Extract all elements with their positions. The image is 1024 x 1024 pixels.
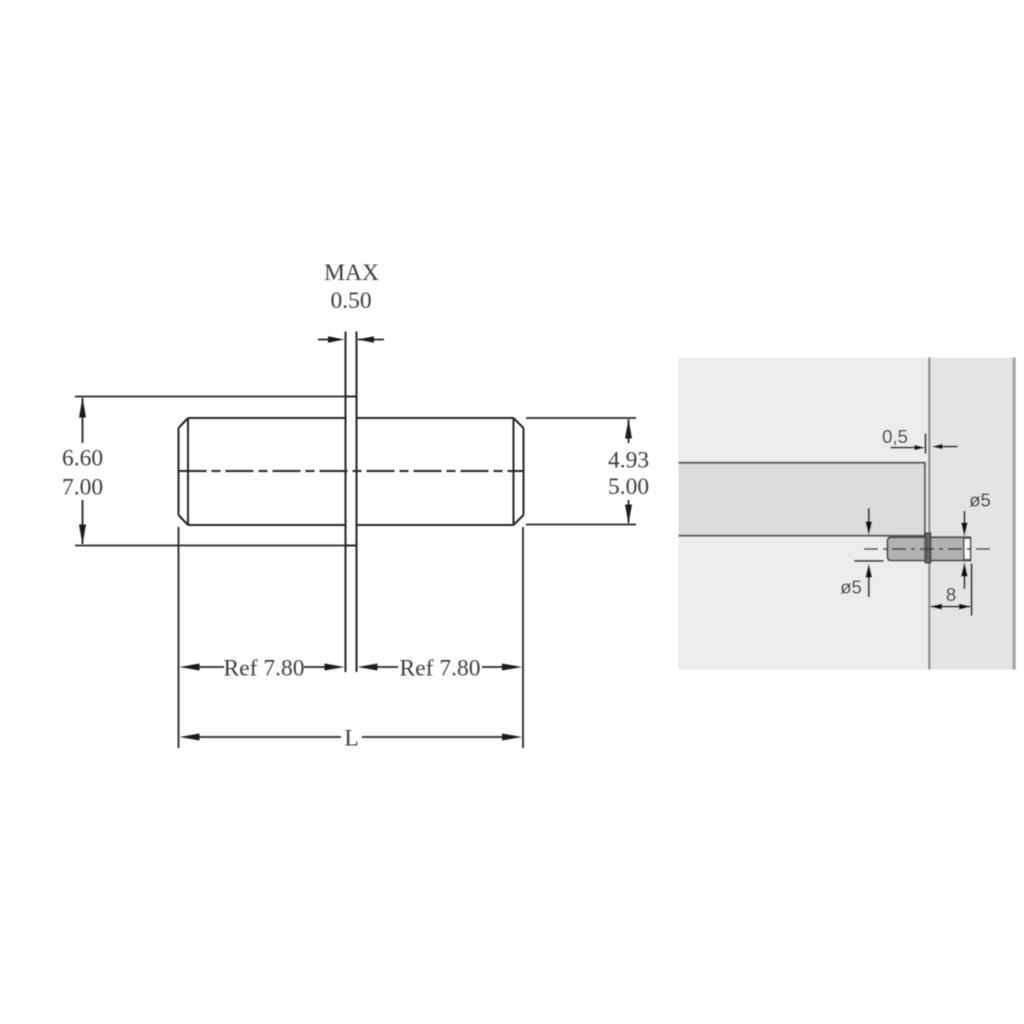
svg-text:MAX: MAX (324, 260, 379, 286)
svg-text:Ref 7.80: Ref 7.80 (224, 656, 305, 682)
svg-text:ø5: ø5 (840, 577, 862, 598)
svg-text:L: L (344, 726, 358, 752)
svg-text:6.60: 6.60 (62, 446, 103, 472)
svg-text:5.00: 5.00 (608, 474, 649, 500)
svg-text:7.00: 7.00 (62, 475, 103, 501)
svg-text:0,5: 0,5 (882, 426, 908, 447)
svg-text:Ref 7.80: Ref 7.80 (400, 656, 481, 682)
svg-text:0.50: 0.50 (330, 288, 371, 314)
svg-text:ø5: ø5 (969, 490, 991, 511)
svg-text:8: 8 (946, 584, 956, 605)
svg-text:4.93: 4.93 (608, 448, 649, 474)
